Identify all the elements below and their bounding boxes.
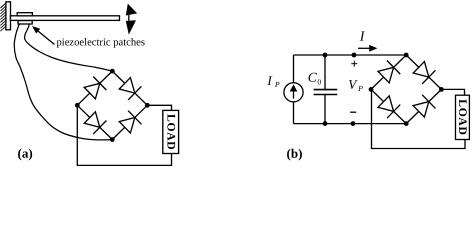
svg-text:LOAD: LOAD bbox=[164, 114, 177, 150]
bridge (a) node dots bbox=[75, 69, 150, 142]
diode D4 (a, bottom-right, points to right node) bbox=[118, 111, 141, 134]
wire from bottom patch (left lead) to bridge bottom node bbox=[14, 24, 112, 140]
diode D1 (a, top-left, points to top node) bbox=[83, 77, 106, 100]
current I arrow bbox=[358, 45, 377, 52]
diode D5 (b, top-left, points to top node) bbox=[377, 61, 400, 84]
diode D2 (a, top-right, points to right node) bbox=[118, 77, 141, 100]
diode bridge (b): edges bbox=[371, 55, 441, 124]
diode D7 (b, bottom-left, points to bottom node) bbox=[377, 95, 400, 118]
diode D6 (b, top-right, points to right node) bbox=[412, 61, 435, 84]
piezoelectric patch (bottom) bbox=[18, 21, 32, 24]
svg-text:LOAD: LOAD bbox=[456, 99, 469, 135]
svg-text:P: P bbox=[274, 80, 280, 89]
wall hatching bbox=[0, 3, 6, 31]
svg-text:I: I bbox=[266, 73, 272, 88]
svg-text:P: P bbox=[357, 84, 363, 93]
capacitor C0 bbox=[314, 55, 338, 124]
svg-text:C: C bbox=[308, 70, 318, 85]
wire from bottom patch (right lead) to bridge top node bbox=[25, 24, 113, 71]
junction dots on rails bbox=[323, 53, 357, 126]
wire left node down and to load bottom (a) bbox=[77, 105, 171, 165]
bridge (b) node dots bbox=[369, 53, 444, 126]
LOAD box (b) bbox=[456, 95, 470, 139]
svg-text:(b): (b) bbox=[287, 146, 303, 161]
minus sign bbox=[350, 111, 356, 113]
plus sign bbox=[351, 61, 357, 67]
piezoelectric patch (top) bbox=[17, 13, 32, 16]
wall (fixed support) bbox=[6, 2, 11, 30]
vibration double arrow at beam tip bbox=[126, 4, 137, 35]
wire right node to load (a) bbox=[147, 105, 171, 110]
svg-text:piezoelectric patches: piezoelectric patches bbox=[56, 37, 145, 48]
LOAD box (a) bbox=[163, 110, 179, 153]
outer loop wires bbox=[294, 55, 407, 124]
cantilever beam bbox=[11, 16, 120, 21]
wire left node down to load bottom (b) bbox=[372, 89, 466, 148]
wire right node to load (b) bbox=[441, 89, 464, 95]
label arrow to patches bbox=[32, 26, 55, 45]
current source Ip bbox=[284, 83, 303, 102]
svg-text:(a): (a) bbox=[18, 146, 33, 161]
diode D8 (b, bottom-right, points to right node) bbox=[412, 95, 435, 118]
svg-text:0: 0 bbox=[317, 77, 321, 86]
diode D3 (a, bottom-left, points to bottom node) bbox=[83, 111, 106, 134]
diode bridge (a): edges bbox=[77, 71, 147, 139]
